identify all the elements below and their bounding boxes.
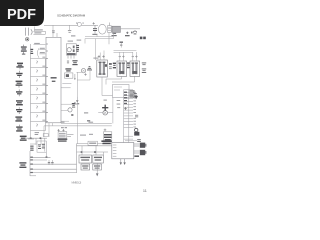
capacitor C11 cluster: [67, 60, 78, 65]
caption text: [72, 180, 82, 184]
transistor Q1: [77, 67, 93, 80]
output connector box J3: [112, 143, 134, 159]
capacitor C10: [20, 136, 27, 141]
svg-text:PDF: PDF: [7, 7, 36, 23]
capacitor C5: [16, 89, 22, 96]
dark stack at bracket left: [30, 49, 33, 54]
junction dots on feed line: [81, 151, 96, 153]
svg-text:MMBD(J): MMBD(J): [72, 180, 82, 184]
crystal X1 box: [79, 155, 92, 163]
svg-text:SCHEMATIC DIAGRAM: SCHEMATIC DIAGRAM: [57, 14, 86, 18]
small caps pair: [48, 160, 54, 165]
wire tick: [77, 103, 91, 121]
output block Q3: [117, 52, 127, 76]
label N1: [125, 32, 130, 37]
opto-coupler U2: [66, 41, 76, 59]
capacitor C19: [120, 42, 124, 48]
connector P2: [140, 150, 147, 155]
wire arrow down: [96, 163, 99, 176]
connector J1 labels: [40, 48, 45, 53]
label box PSU: [88, 141, 97, 145]
sub box B3: [81, 164, 90, 170]
ladder cell marks: [37, 57, 46, 127]
capacitor C16: [42, 144, 45, 149]
capacitor C8: [15, 116, 22, 121]
dark label right: [101, 140, 111, 144]
op-amp IC U1: [46, 37, 61, 123]
fuse holder under badge: [26, 28, 32, 36]
wire secondary links: [114, 51, 137, 53]
wire vertical feed with terminator: [68, 25, 71, 33]
connector ladder rails: [31, 44, 46, 131]
capacitor C12: [65, 68, 71, 71]
capacitor C3: [16, 71, 22, 78]
wire output mesh: [102, 76, 135, 95]
neon lamp NE1: [26, 38, 29, 41]
transformer T1: [112, 26, 120, 32]
label near box: [137, 139, 141, 142]
wire IC top stubs: [53, 25, 57, 37]
plus marks above Q4: [132, 55, 138, 57]
capacitor C2: [16, 63, 23, 70]
plus marks above Q3: [119, 55, 125, 57]
mid labels on rail: [80, 134, 93, 136]
page number: [143, 189, 147, 193]
dark labels top right: [140, 37, 146, 40]
wire transformer output: [109, 29, 140, 45]
connector bracket J1: [37, 48, 45, 58]
down arrow on drop wire: [76, 97, 78, 103]
PDF badge: [0, 0, 44, 26]
wire under-IC bus: [26, 137, 47, 151]
small box under IC: [43, 134, 48, 137]
svg-text:11: 11: [143, 189, 147, 193]
capacitor C18 between Q3 Q4: [127, 62, 130, 68]
output block Q2: [97, 51, 108, 78]
capacitor C20: [92, 22, 97, 35]
marks under rails: [61, 127, 67, 128]
terminal rows TB1: [33, 27, 45, 45]
capacitor C15: [38, 144, 41, 149]
capacitor C1: [21, 45, 27, 55]
warning mark W1: [134, 93, 138, 96]
pin name column inside bus: [124, 92, 127, 104]
wire ladder bottom: [28, 131, 36, 145]
rung start pins: [30, 157, 33, 173]
connector P1: [140, 143, 147, 148]
filter box F2: [37, 141, 47, 158]
rail labels: [61, 122, 94, 123]
sub box B4: [93, 164, 102, 170]
fuse F1: [76, 22, 84, 26]
wire twin bus: [85, 33, 114, 61]
wire left drop: [76, 80, 78, 144]
capacitor C6: [16, 100, 23, 105]
label below P2: [134, 155, 139, 157]
diode D9: [131, 31, 137, 34]
label two-line L2: [135, 115, 138, 118]
arrow pair A2: [134, 151, 140, 153]
bottom connector rail: [30, 151, 77, 176]
capacitor C4: [16, 81, 23, 88]
motor symbol M3: [98, 98, 113, 124]
relay contact box B1: [65, 73, 76, 80]
transistor cluster dark blob: [134, 128, 139, 135]
bus pin labels: [133, 92, 136, 128]
resistor R2: [76, 45, 79, 52]
title text: [57, 14, 86, 18]
diode D2 beside Q2: [109, 63, 112, 69]
output block Q4: [130, 52, 140, 76]
right twin-rail bus: [124, 90, 137, 143]
regulator block VR1: [57, 129, 73, 142]
wire IC right ticks: [61, 104, 78, 121]
down arrow M2: [123, 159, 125, 165]
relay block K1: [77, 144, 113, 173]
bus left labels: [117, 100, 121, 108]
LED D3: [68, 102, 88, 116]
arrow pair A1: [134, 144, 140, 146]
crystal X2 box: [93, 155, 104, 163]
choke L2: [19, 162, 26, 168]
label rows under IC: [35, 132, 39, 135]
relay box K2: [113, 85, 130, 98]
label near bus left: [77, 40, 99, 59]
snubber network RC1: [108, 23, 112, 33]
regulator block VR2: [103, 129, 111, 142]
plus marks above Q2: [98, 55, 105, 58]
wire joints bottom cluster: [82, 146, 103, 155]
label under transformer: [112, 33, 117, 36]
capacitor C17 left of Q3: [113, 63, 116, 69]
capacitor C9: [16, 125, 22, 132]
capacitor C13: [142, 62, 146, 73]
capacitor C7: [16, 107, 22, 114]
down arrow M1: [120, 159, 122, 165]
inductor L1 loop: [98, 24, 106, 34]
plus mark: [124, 107, 127, 110]
wire long rails: [44, 123, 112, 126]
IC bottom stubs: [44, 123, 53, 137]
wire top bus: [44, 24, 98, 26]
diode stack D5: [30, 146, 33, 151]
wire gnd dashes: [61, 83, 71, 87]
diode stack D4: [130, 90, 138, 99]
